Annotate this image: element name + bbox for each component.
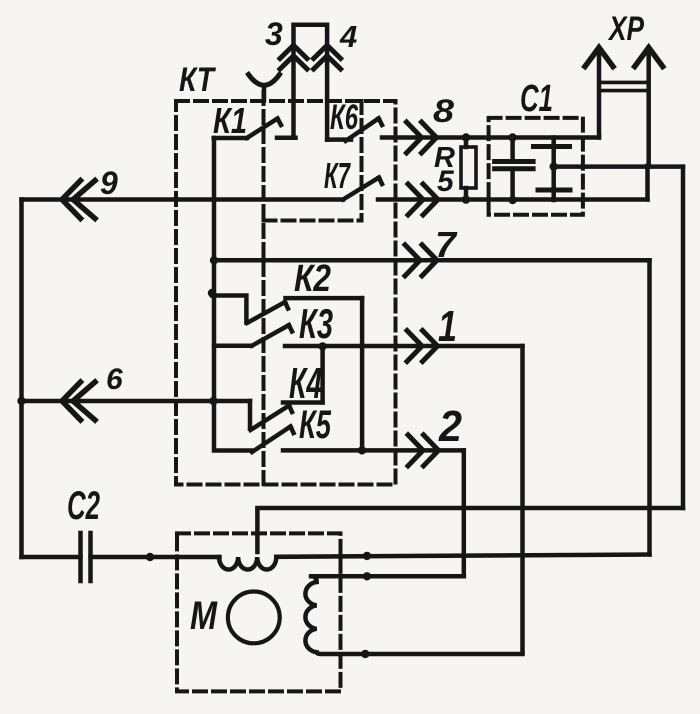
main vertical bus xyxy=(214,138,251,451)
contact K2 blade xyxy=(247,302,285,323)
wire 5 xyxy=(378,197,648,202)
contact K2 output xyxy=(286,296,363,301)
contact K2 blade tip tick xyxy=(285,302,288,309)
svg-text:3: 3 xyxy=(265,16,283,52)
svg-text:КТ: КТ xyxy=(179,61,217,99)
contact K4 feed jog xyxy=(248,401,253,429)
connector XP left pin arrowhead xyxy=(585,48,613,67)
svg-text:М: М xyxy=(190,594,218,638)
contact K5 blade xyxy=(252,427,291,453)
arrow 5 chevrons xyxy=(408,184,423,215)
pin 3 shaft xyxy=(291,46,296,138)
contact K1 blade xyxy=(247,119,278,139)
contact K4 blade tip tick xyxy=(289,406,292,413)
contact K1 fixed contact tick xyxy=(277,136,296,141)
capacitor C2 left wire xyxy=(22,555,81,560)
contact K2 output riser xyxy=(360,298,365,450)
contact K5 blade tip tick xyxy=(291,427,294,434)
C1 dashed box xyxy=(489,118,583,215)
inner contact-group dashed box right edge xyxy=(360,101,364,221)
contact K3 blade tip tick xyxy=(289,325,292,331)
KT inner dashed divider xyxy=(262,92,266,485)
contact K6 blade tip tick xyxy=(379,118,382,125)
long wire to motor top entry xyxy=(257,508,683,552)
feedthrough capacitor C1b bottom bar xyxy=(538,188,570,193)
svg-text:К4: К4 xyxy=(289,359,322,408)
svg-text:К3: К3 xyxy=(299,300,333,347)
connector 3/4 housing xyxy=(294,25,328,46)
left bus xyxy=(19,200,24,558)
svg-text:9: 9 xyxy=(100,165,118,201)
contact K1 feed horizontal xyxy=(214,136,247,141)
feedthrough capacitor C1b center conductor xyxy=(551,138,556,201)
resistor R bottom lead xyxy=(464,188,469,200)
svg-text:2: 2 xyxy=(438,402,462,451)
svg-text:С2: С2 xyxy=(67,484,100,528)
capacitor C1a bottom lead xyxy=(510,169,515,200)
svg-text:К7: К7 xyxy=(324,155,351,196)
svg-text:7: 7 xyxy=(435,224,458,265)
relay enclosure KT dashed box xyxy=(176,101,396,485)
contact K4 blade xyxy=(251,406,290,431)
svg-text:5: 5 xyxy=(437,165,455,198)
far right riser from tap down xyxy=(681,167,686,508)
wire 1 xyxy=(285,344,523,349)
capacitor C1a plates xyxy=(495,159,533,164)
wire 1 right riser xyxy=(520,346,525,653)
arrow 1 chevrons xyxy=(407,331,422,362)
resistor R xyxy=(461,147,476,188)
svg-text:С1: С1 xyxy=(520,78,553,120)
motor feed line from winding to riser xyxy=(276,555,649,557)
motor winding 1 (horizontal) xyxy=(219,557,276,570)
contact K6 blade xyxy=(346,118,379,140)
contact K4 fixed bar xyxy=(283,400,323,405)
contact K3 blade xyxy=(252,325,289,346)
arrow 7 chevrons xyxy=(405,245,420,276)
wire 2 link to winding top xyxy=(311,574,464,579)
wire 7 xyxy=(214,258,650,263)
contact K1 blade tip tick xyxy=(278,119,282,126)
arrow 6 chevrons xyxy=(62,382,81,420)
svg-text:6: 6 xyxy=(106,363,123,396)
svg-text:К1: К1 xyxy=(213,100,247,141)
wire 7 right riser xyxy=(647,260,652,554)
svg-text:4: 4 xyxy=(339,19,357,54)
wire 8 xyxy=(382,135,599,140)
arrow 8 chevrons xyxy=(407,122,422,153)
arrow 9 chevrons xyxy=(62,181,81,219)
feedthrough capacitor C1b top bar xyxy=(534,144,570,149)
wire 2 xyxy=(283,448,464,453)
wire 9 xyxy=(22,197,344,202)
pin 4 shaft xyxy=(325,46,330,140)
contact K2 feed xyxy=(212,296,246,323)
wire 5 riser to tap xyxy=(645,167,650,200)
contact K3 feed xyxy=(214,343,251,348)
contact K4 riser from wire 1 xyxy=(320,346,325,402)
motor dashed box xyxy=(177,533,341,691)
contact K6 hinge foot xyxy=(327,137,351,142)
thermal element stem xyxy=(262,88,267,100)
contact K7 blade xyxy=(343,178,379,200)
svg-text:К5: К5 xyxy=(299,403,332,447)
motor M rotor circle xyxy=(228,592,280,644)
svg-text:К6: К6 xyxy=(330,98,358,137)
connector XP joining bars xyxy=(599,81,649,85)
svg-text:К2: К2 xyxy=(294,258,331,300)
resistor R top lead xyxy=(464,138,469,148)
feedthrough capacitor C1b tap xyxy=(554,164,683,169)
arrow 2 chevrons xyxy=(408,435,423,466)
svg-text:8: 8 xyxy=(433,93,454,129)
connector XP right pin shaft xyxy=(646,48,651,167)
inner contact-group dashed box bottom edge xyxy=(264,219,362,223)
wire 6 xyxy=(22,399,251,404)
svg-text:ХР: ХР xyxy=(607,10,644,48)
capacitor C2 right wire xyxy=(91,555,220,560)
capacitor C2 plates xyxy=(78,533,83,581)
connector XP left pin shaft xyxy=(597,48,602,138)
pin 4 arrow chevrons xyxy=(314,45,341,58)
pin 3 arrow chevrons xyxy=(280,45,307,58)
wire 2 drop xyxy=(462,450,467,576)
contact K7 blade tip tick xyxy=(379,178,382,185)
thermal element arc of KT xyxy=(249,75,280,86)
connector XP right pin arrowhead xyxy=(635,48,663,67)
svg-text:1: 1 xyxy=(438,302,457,351)
capacitor C1a top lead xyxy=(510,138,515,162)
motor winding 2 (vertical) xyxy=(305,576,522,654)
